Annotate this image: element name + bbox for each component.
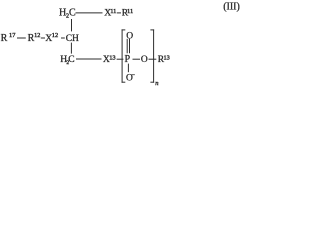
svg-text:CH: CH <box>66 34 79 44</box>
svg-text:R: R <box>1 33 8 44</box>
svg-text:–: – <box>131 72 136 78</box>
svg-text:13: 13 <box>164 55 170 62</box>
svg-text:12: 12 <box>52 32 58 39</box>
svg-text:17: 17 <box>9 32 16 39</box>
svg-text:C: C <box>69 8 76 19</box>
svg-text:O: O <box>141 55 148 65</box>
svg-text:C: C <box>68 55 74 65</box>
svg-text:12: 12 <box>34 32 40 39</box>
svg-text:(III): (III) <box>223 1 240 12</box>
svg-text:11: 11 <box>127 8 133 15</box>
svg-text:n: n <box>155 80 158 87</box>
svg-text:13: 13 <box>109 55 115 62</box>
svg-text:P: P <box>125 54 131 65</box>
svg-text:11: 11 <box>110 8 116 15</box>
svg-text:O: O <box>126 31 133 41</box>
